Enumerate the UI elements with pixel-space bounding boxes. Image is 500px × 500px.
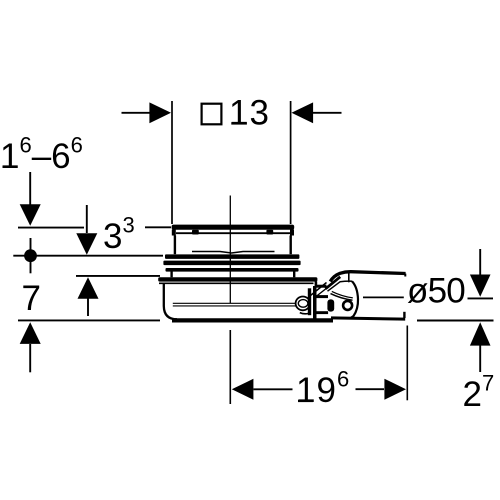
svg-text:196: 196: [296, 367, 350, 411]
svg-text:13: 13: [229, 94, 270, 133]
svg-text:16–66: 16–66: [0, 133, 83, 177]
svg-text:7: 7: [22, 279, 41, 318]
svg-text:ø50: ø50: [407, 272, 465, 311]
svg-text:33: 33: [103, 213, 135, 257]
svg-text:27: 27: [463, 371, 495, 415]
